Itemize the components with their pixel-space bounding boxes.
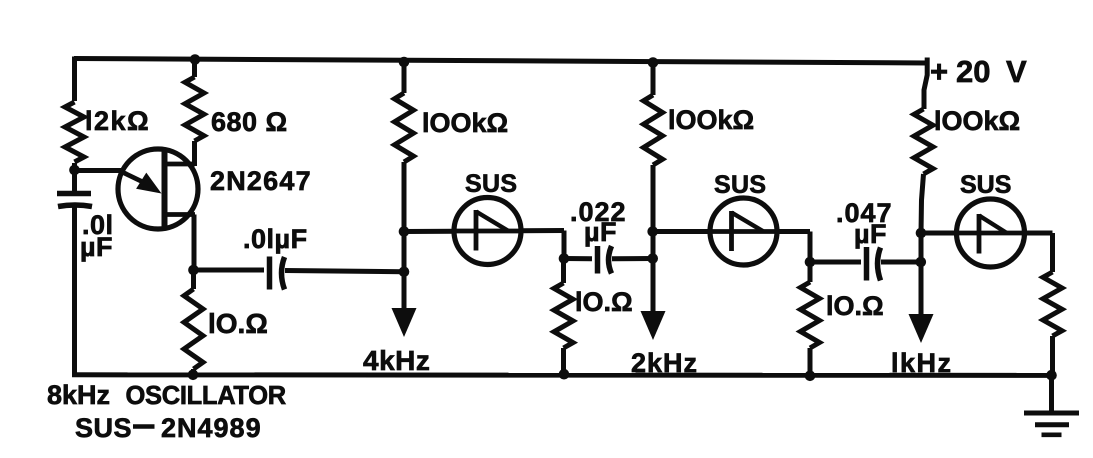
svg-text:l2kΩ: l2kΩ: [85, 106, 150, 136]
svg-text:SUS: SUS: [75, 413, 132, 443]
svg-text:lOOkΩ: lOOkΩ: [668, 105, 754, 135]
svg-text:lO.Ω: lO.Ω: [208, 308, 268, 339]
svg-text:2N4989: 2N4989: [161, 413, 262, 443]
svg-text:lOOkΩ: lOOkΩ: [422, 108, 508, 138]
svg-text:OSCILLATOR: OSCILLATOR: [126, 382, 286, 410]
svg-text:+: +: [930, 54, 948, 89]
svg-text:lO.Ω: lO.Ω: [826, 291, 884, 321]
svg-text:2kHz: 2kHz: [631, 348, 698, 378]
svg-text:SUS: SUS: [960, 171, 1011, 199]
svg-text:µF: µF: [80, 232, 113, 262]
svg-text:2N2647: 2N2647: [210, 166, 312, 196]
svg-text:lO.Ω: lO.Ω: [575, 287, 633, 317]
svg-text:µF: µF: [854, 219, 887, 249]
svg-text:lOOkΩ: lOOkΩ: [934, 106, 1020, 136]
svg-text:.0lµF: .0lµF: [243, 224, 308, 254]
svg-text:SUS: SUS: [465, 170, 517, 198]
svg-text:SUS: SUS: [714, 171, 766, 199]
svg-text:680 Ω: 680 Ω: [211, 107, 288, 137]
svg-text:µF: µF: [584, 217, 617, 247]
svg-text:8kHz: 8kHz: [47, 380, 110, 410]
svg-text:lkHz: lkHz: [891, 348, 953, 378]
svg-text:4kHz: 4kHz: [363, 345, 430, 376]
svg-text:V: V: [1006, 54, 1027, 89]
svg-text:20: 20: [956, 54, 990, 89]
